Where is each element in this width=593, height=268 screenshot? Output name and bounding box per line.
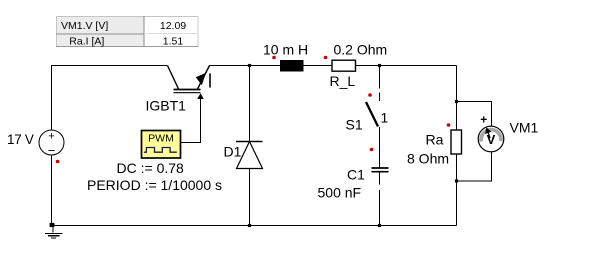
junction bottom-left xyxy=(50,223,55,227)
junction D1 bottom xyxy=(248,224,251,227)
junction node at S1 branch xyxy=(378,64,381,67)
wire VM1 bottom xyxy=(457,152,492,182)
svg-text:+: + xyxy=(480,112,487,126)
red node dot C1 xyxy=(370,148,374,152)
svg-text:10 m H: 10 m H xyxy=(263,42,308,58)
wire top-left rail xyxy=(52,66,168,131)
voltage source VS1 (17 V) xyxy=(39,130,64,158)
transistor IGBT1 xyxy=(168,66,211,100)
resistor Ra xyxy=(451,130,462,154)
measurement table xyxy=(56,16,199,47)
svg-text:IGBT1: IGBT1 xyxy=(146,98,187,114)
svg-text:0.2 Ohm: 0.2 Ohm xyxy=(334,42,388,58)
svg-text:DC := 0.78: DC := 0.78 xyxy=(117,160,185,176)
svg-text:17 V: 17 V xyxy=(7,132,34,147)
inductor L1 (10 m H) xyxy=(280,60,304,72)
svg-text:12.09: 12.09 xyxy=(160,20,186,32)
svg-text:Ra: Ra xyxy=(426,132,444,148)
red node dot source xyxy=(56,160,60,164)
red node dot S1 xyxy=(368,93,372,97)
svg-text:R_L: R_L xyxy=(330,73,356,89)
svg-text:1: 1 xyxy=(381,110,389,126)
svg-text:D1: D1 xyxy=(224,144,242,160)
wire Ra bottom xyxy=(456,154,458,226)
svg-text:500 nF: 500 nF xyxy=(318,185,362,201)
junction node at D1 branch xyxy=(248,64,251,67)
svg-text:VM1.V [V]: VM1.V [V] xyxy=(61,20,108,32)
junction Ra top xyxy=(455,100,458,103)
svg-text:PERIOD := 1/10000 s: PERIOD := 1/10000 s xyxy=(87,177,222,193)
ground xyxy=(45,226,63,239)
junction C1 bottom xyxy=(378,224,381,227)
wire source bottom to bus xyxy=(51,155,53,226)
diode D1 xyxy=(236,66,263,226)
wire to VM1 top xyxy=(457,102,492,127)
red node dot Ra xyxy=(447,123,451,127)
wire R_L to right corner xyxy=(356,65,457,67)
red node dot inductor xyxy=(272,56,276,60)
capacitor C1 xyxy=(372,168,389,226)
svg-text:S1: S1 xyxy=(346,117,363,133)
svg-text:8 Ohm: 8 Ohm xyxy=(407,151,449,167)
svg-text:V: V xyxy=(487,132,496,147)
wire IGBT gate to PWM xyxy=(181,99,201,143)
svg-text:C1: C1 xyxy=(347,167,365,183)
wire top rail right of IGBT xyxy=(210,65,281,67)
switch S1 xyxy=(366,66,380,168)
voltmeter VM1 xyxy=(478,112,504,151)
svg-text:+: + xyxy=(48,131,54,143)
resistor R_L xyxy=(332,60,356,71)
svg-text:1.51: 1.51 xyxy=(163,36,184,48)
svg-text:Ra.I [A]: Ra.I [A] xyxy=(69,36,104,48)
svg-text:VM1: VM1 xyxy=(510,120,539,136)
PWM generator driving IGBT1 gate xyxy=(142,131,181,159)
svg-text:PWM: PWM xyxy=(148,133,174,145)
red node dot R_L xyxy=(324,56,328,60)
wire between L and R_L xyxy=(304,65,333,67)
bottom bus wire xyxy=(52,225,457,227)
junction Ra bottom xyxy=(455,179,458,182)
wire right branch down xyxy=(456,66,458,131)
